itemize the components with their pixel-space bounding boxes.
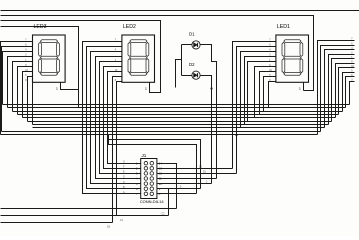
7-seg display LED2 — [122, 35, 155, 82]
7-seg display LED3 — [33, 35, 66, 82]
svg-text:D2: D2 — [189, 62, 195, 67]
wire top bus line 2 -> LED1 common — [1, 16, 314, 91]
wire bottom row 3 — [1, 222, 113, 224]
wire right riser 7 — [339, 68, 355, 115]
wire LED2 pin8 — [113, 77, 122, 223]
wire bus row 10 — [1, 134, 318, 136]
wire J1 pin13 — [157, 168, 233, 170]
wire bus row 1 — [3, 104, 350, 106]
svg-text:LED1: LED1 — [277, 24, 290, 30]
wire J1 pin14 — [157, 164, 177, 209]
wire bus row 6 — [28, 121, 332, 123]
svg-text:CONN-DIL14: CONN-DIL14 — [140, 199, 165, 204]
wire LED2 pin9 — [117, 82, 122, 216]
wire LED1 pin6 — [255, 67, 276, 118]
wire right riser 9 — [346, 77, 355, 108]
svg-text:J1: J1 — [142, 153, 147, 158]
LED D1 — [192, 41, 200, 49]
wire mid row to J1 pin8 — [109, 135, 197, 194]
wire D anode bracket — [181, 45, 183, 76]
wire LED1 pin9 — [269, 82, 276, 108]
LED D2 — [192, 71, 200, 79]
wire LED1 pin8 — [264, 77, 276, 112]
wire bus row 5 — [23, 117, 336, 119]
wire LED1 pin4 — [245, 57, 276, 125]
wire J1 pin8 — [157, 193, 197, 195]
wire LED3 pin5 — [13, 62, 33, 112]
wire right riser 10 — [350, 82, 355, 105]
wire LED3 pin2 — [2, 47, 33, 132]
wire LED2 pin6 to J1 — [104, 67, 141, 169]
wire LED1 pin7 — [260, 72, 276, 115]
wire bus row 8 — [33, 127, 325, 129]
wire D1 cathode — [201, 45, 217, 179]
wire right riser 8 — [343, 73, 355, 112]
wire J1 p12 riser — [236, 132, 238, 174]
wire right riser 3 — [325, 50, 355, 128]
svg-text:D1: D1 — [189, 32, 195, 37]
wire LED2 pin5 to J1 — [100, 62, 141, 174]
wire LED2 pin2 to J1 — [87, 47, 141, 189]
wire right riser 6 — [336, 64, 355, 118]
wire bottom row 1 — [1, 208, 177, 210]
wire LED1 pin1 — [233, 42, 276, 135]
wire top bus line 1 — [1, 10, 359, 12]
wire LED3 pin8 — [28, 77, 33, 122]
wire J1 pin12 — [157, 173, 237, 175]
wire bus row 4 — [18, 114, 339, 116]
7-seg display LED1 — [276, 35, 309, 82]
svg-text:3: 3 — [145, 87, 147, 91]
wire LED2 pin3 to J1 — [91, 52, 141, 184]
svg-text:3: 3 — [56, 87, 58, 91]
wire J1 pin11 — [157, 178, 217, 180]
svg-text:3: 3 — [299, 87, 301, 91]
wire J1 pin9 drop — [168, 189, 170, 216]
wire LED1 pin5 — [248, 62, 276, 122]
wire LED3 pin7 — [23, 72, 33, 118]
svg-text:LED3: LED3 — [34, 24, 47, 30]
wire LED2 pin7 to J1 — [108, 72, 141, 164]
svg-text:G: G — [123, 161, 125, 163]
wire D1 anode — [182, 44, 192, 46]
wire right riser 4 — [329, 55, 355, 125]
wire LED3 label row -> LED3 common — [1, 27, 79, 108]
wire LED2 pin4 to J1 — [96, 57, 141, 179]
wire D2 cathode — [201, 76, 212, 184]
svg-text:LED2: LED2 — [123, 24, 136, 30]
wire LED3 pin3 — [3, 52, 33, 105]
wire bottom row 2 — [1, 215, 169, 217]
wire LED3 pin4 — [8, 57, 33, 108]
wire bus row 2 — [8, 107, 346, 109]
wire LED1 pin2 — [237, 47, 276, 132]
wire LED3 pin9 — [32, 82, 34, 125]
wire LED2 pin1 to J1 — [83, 42, 141, 194]
wire D anode tap — [176, 60, 182, 88]
wire LED3 pin6 — [18, 67, 33, 115]
wire LED1 pin3 — [241, 52, 276, 128]
wire D2 anode — [182, 75, 192, 77]
wire LED3 pin1 — [1, 42, 33, 135]
wire right riser 1 — [318, 41, 355, 135]
wire top bus line 3 -> LED2 common — [1, 21, 161, 93]
wire bus row 9 — [2, 131, 321, 133]
wire mid row to J1 pin9 — [108, 135, 201, 189]
LED1 common cathode pin 3 — [303, 83, 305, 91]
wire bus row 3 — [13, 111, 343, 113]
junction dots — [235, 134, 237, 136]
wire right riser 5 — [332, 59, 355, 122]
wire J1 p13 riser — [232, 135, 234, 169]
connector J1 — [141, 159, 157, 199]
LED3 common cathode pin 3 — [61, 83, 79, 90]
wire right riser 2 — [321, 46, 355, 132]
wire J1 pin9 — [157, 188, 201, 190]
wire bus row 7 — [33, 124, 329, 126]
wire J1 pin10 — [157, 183, 212, 185]
